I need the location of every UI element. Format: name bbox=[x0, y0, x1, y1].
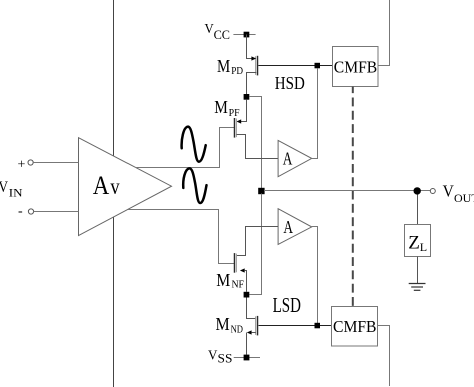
node junction MPD drain / MPF source bbox=[244, 94, 250, 100]
svg-text:M: M bbox=[216, 270, 230, 290]
svg-text:HSD: HSD bbox=[275, 73, 305, 93]
svg-text:V: V bbox=[208, 349, 217, 364]
svg-text:PF: PF bbox=[229, 107, 240, 119]
wire: VOUT dot to ZL bbox=[417, 195, 419, 225]
node VOUT label bbox=[443, 182, 474, 205]
node VCC junction bbox=[244, 32, 250, 38]
svg-text:v: v bbox=[110, 174, 120, 199]
node + input terminal bbox=[18, 158, 34, 173]
node VCC label bbox=[205, 22, 231, 42]
svg-text:-: - bbox=[18, 204, 23, 219]
wire: main output line to VOUT bbox=[264, 190, 430, 192]
node junction at MPD gate / A1 output bbox=[315, 63, 321, 69]
svg-text:LSD: LSD bbox=[273, 293, 301, 317]
svg-text:NF: NF bbox=[232, 279, 245, 291]
wire: MPD gate to CMFB bbox=[258, 65, 332, 67]
svg-text:A: A bbox=[283, 217, 293, 237]
wire: amp top output to MPF gate bbox=[135, 128, 234, 168]
wire: CMFB bottom output to bottom rail bbox=[378, 326, 390, 387]
node junction MNF source / MND drain bbox=[244, 292, 250, 298]
svg-text:CMFB: CMFB bbox=[333, 317, 377, 336]
svg-text:PD: PD bbox=[231, 65, 243, 77]
op-amp A1 (upper feedback amp) bbox=[278, 140, 312, 176]
wire: CMFB top output to top rail bbox=[378, 0, 390, 66]
node junction at MND gate / A2 output bbox=[315, 323, 321, 329]
transistor MPF bbox=[235, 100, 279, 159]
svg-text:L: L bbox=[420, 240, 427, 254]
node VOUT terminal bbox=[430, 189, 435, 194]
component ZL load bbox=[405, 225, 431, 257]
svg-text:CMFB: CMFB bbox=[334, 57, 377, 76]
node VSS junction bbox=[244, 355, 250, 361]
svg-text:IN: IN bbox=[9, 188, 23, 200]
node MPD label bbox=[217, 56, 243, 77]
wire: junction to inner vertical rail bbox=[249, 97, 261, 189]
wire: A1 output up to CMFB input line bbox=[312, 68, 318, 158]
wire: left tall vertical bias line bbox=[113, 0, 115, 387]
svg-text:A: A bbox=[93, 171, 110, 200]
svg-text:M: M bbox=[217, 56, 230, 76]
node bottom sine-wave signal symbol bbox=[183, 168, 206, 203]
svg-text:V: V bbox=[0, 179, 8, 196]
node - input terminal bbox=[18, 204, 34, 219]
wire: VSS stub bbox=[234, 357, 260, 359]
wire: dashed link between CMFB blocks bbox=[352, 87, 354, 307]
svg-text:ND: ND bbox=[231, 323, 243, 335]
transistor MND bbox=[247, 298, 258, 355]
node VSS label bbox=[208, 349, 232, 366]
wire: VCC to MPD source bbox=[247, 35, 252, 59]
svg-text:CC: CC bbox=[214, 28, 230, 42]
wire: amp bottom output to MNF gate bbox=[128, 210, 235, 264]
wire: ZL to ground bbox=[417, 257, 419, 284]
node VOUT junction dot bbox=[414, 187, 421, 194]
transistor MPD bbox=[247, 56, 258, 94]
svg-text:M: M bbox=[216, 314, 230, 334]
node MPF label bbox=[214, 97, 239, 119]
wire: A2 output down to CMFB input line bbox=[312, 227, 318, 324]
wire: inner rail lower half bbox=[249, 194, 261, 295]
node top sine-wave signal symbol bbox=[182, 127, 206, 162]
block CMFB (bottom) bbox=[332, 307, 378, 347]
transistor MNF bbox=[235, 227, 279, 292]
op-amp AV (main amplifier) bbox=[79, 138, 172, 236]
node main output junction bbox=[258, 188, 264, 194]
svg-text:V: V bbox=[205, 22, 214, 37]
svg-text:A: A bbox=[283, 149, 293, 169]
svg-text:Z: Z bbox=[408, 233, 420, 254]
svg-text:M: M bbox=[214, 97, 228, 117]
svg-text:+: + bbox=[18, 158, 26, 173]
wire: VCC stub bbox=[233, 34, 255, 36]
svg-text:SS: SS bbox=[218, 351, 233, 366]
block CMFB (top) bbox=[333, 47, 379, 87]
wire: - input to amp bbox=[34, 211, 79, 213]
node MND label bbox=[216, 314, 244, 335]
svg-text:V: V bbox=[443, 182, 455, 201]
node VIN label bbox=[0, 179, 23, 200]
ground bbox=[409, 284, 426, 291]
node MNF label bbox=[216, 270, 244, 291]
svg-text:OUT: OUT bbox=[454, 191, 474, 205]
wire: MND gate to CMFB (bottom) bbox=[259, 325, 332, 327]
op-amp A2 (lower feedback amp) bbox=[278, 209, 312, 245]
wire: + input to amp bbox=[33, 162, 78, 164]
